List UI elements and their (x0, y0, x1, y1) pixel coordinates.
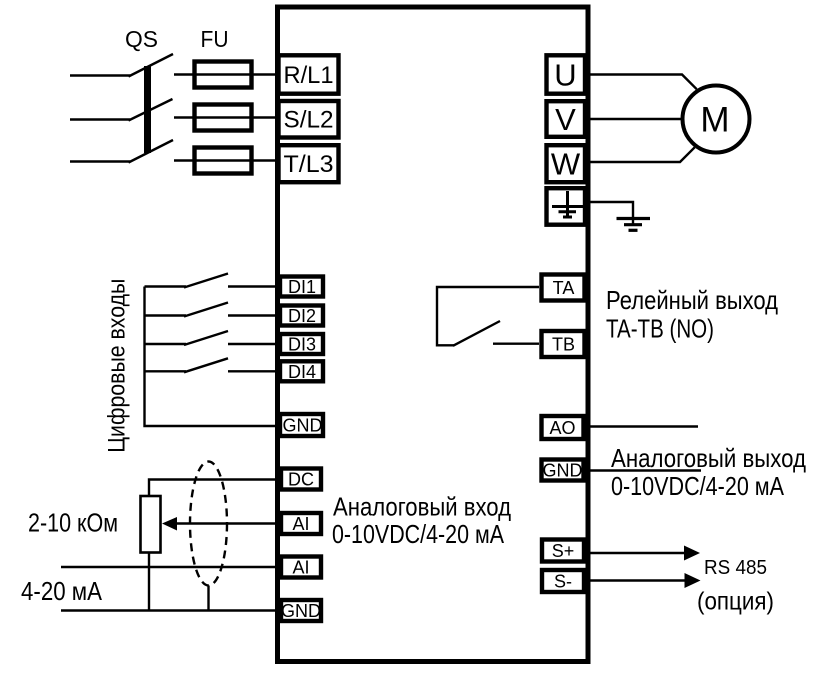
svg-text:AI: AI (292, 558, 309, 578)
shield ellipse (190, 462, 227, 586)
wire fuse FU1 to R/L1 (174, 73, 279, 75)
terminal DC (281, 469, 321, 490)
wire DI4 left (145, 370, 187, 372)
switch QS pole 3 blade (129, 140, 174, 163)
terminal DI4 (280, 361, 323, 382)
svg-text:DI3: DI3 (288, 335, 316, 355)
wire GND analog output (586, 469, 701, 471)
terminal GND analog input (281, 600, 321, 621)
svg-text:QS: QS (125, 26, 158, 52)
svg-text:4-20 мА: 4-20 мА (21, 576, 103, 606)
wire DI2 left (145, 314, 187, 316)
svg-text:RS 485: RS 485 (704, 557, 767, 579)
arrowhead S+ (684, 546, 700, 561)
svg-text:Аналоговый выход: Аналоговый выход (611, 443, 806, 473)
svg-text:Цифровые входы: Цифровые входы (104, 279, 131, 453)
wire PE to external earth (587, 202, 633, 224)
wire S- RS485 (586, 579, 685, 581)
svg-text:AO: AO (549, 418, 575, 438)
terminal U (547, 55, 586, 93)
relay blade (453, 321, 500, 346)
svg-text:(опция): (опция) (697, 588, 774, 616)
terminal T/L3 (279, 145, 339, 182)
wiper arrowhead (162, 517, 177, 531)
svg-text:DI1: DI1 (288, 277, 316, 297)
terminal GND analog output (542, 460, 584, 481)
wire U to motor (587, 75, 697, 90)
wire DC to potentiometer (149, 480, 279, 497)
terminal AI lower (281, 557, 321, 578)
fuse FU2 (195, 105, 252, 131)
terminal AI upper (281, 513, 321, 534)
svg-text:2-10 кОм: 2-10 кОм (28, 508, 118, 538)
digital input bus wire (145, 287, 280, 427)
inverter main box (278, 7, 589, 662)
svg-text:R/L1: R/L1 (284, 62, 334, 89)
terminal DI1 (280, 277, 323, 298)
wire DI3 left (145, 343, 187, 345)
terminal S+ (542, 540, 584, 562)
svg-text:AI: AI (292, 514, 309, 534)
wire AO output (586, 425, 698, 427)
terminal V (547, 101, 586, 137)
wiper wire AI (176, 522, 279, 524)
wire phase 2 input (70, 118, 130, 120)
wire fuse FU3 to T/L3 (174, 159, 279, 161)
svg-text:DI2: DI2 (288, 306, 316, 326)
svg-text:M: M (700, 101, 729, 140)
switch DI1 blade (184, 274, 228, 288)
terminal S- (542, 570, 584, 592)
terminal TA (542, 275, 585, 301)
terminal PE (547, 188, 586, 225)
wire GND analog input (61, 609, 279, 611)
wire DI1 right (228, 285, 279, 287)
switch QS pole 1 blade (129, 54, 174, 77)
shield drain wire (207, 586, 209, 611)
motor M (683, 86, 750, 153)
svg-text:TA: TA (553, 278, 575, 298)
svg-text:U: U (554, 58, 576, 93)
svg-text:TB: TB (552, 335, 575, 355)
wire phase 1 input (70, 74, 130, 76)
wire AI lower (4-20 mA) (61, 566, 279, 568)
svg-text:S/L2: S/L2 (284, 107, 334, 134)
terminal AO (542, 416, 584, 439)
svg-text:S-: S- (554, 572, 572, 592)
switch QS pole 2 blade (129, 99, 173, 121)
arrowhead S- (685, 573, 701, 588)
terminal DI3 (280, 334, 323, 355)
wire TB relay (493, 343, 539, 345)
switch DI4 blade (184, 358, 228, 372)
terminal S/L2 (279, 101, 339, 138)
svg-text:V: V (555, 102, 576, 137)
svg-text:GND: GND (281, 601, 321, 621)
svg-text:S+: S+ (552, 541, 575, 561)
wire DI3 right (228, 343, 279, 345)
earth symbol in PE terminal (552, 191, 584, 218)
svg-text:0-10VDC/4-20 мА: 0-10VDC/4-20 мА (611, 471, 785, 501)
wire DI1 left (145, 285, 187, 287)
terminal W (547, 145, 586, 182)
wire DI2 right (228, 314, 279, 316)
wire S+ RS485 (586, 552, 685, 554)
svg-text:Аналоговый вход: Аналоговый вход (333, 492, 511, 522)
svg-text:GND: GND (543, 461, 583, 481)
svg-text:FU: FU (201, 26, 229, 52)
wire V to motor (587, 118, 681, 120)
svg-text:DC: DC (288, 470, 314, 490)
terminal R/L1 (279, 55, 339, 93)
fuse FU1 (195, 62, 252, 88)
terminal DI2 (280, 306, 323, 327)
svg-text:Релейный выход: Релейный выход (606, 285, 778, 315)
external earth symbol (617, 219, 651, 231)
switch DI3 blade (184, 331, 228, 345)
wire fuse FU2 to S/L2 (174, 116, 279, 118)
switch DI2 blade (184, 303, 228, 317)
wire TA relay (437, 287, 539, 345)
QS mechanical link bar (144, 66, 151, 153)
svg-text:0-10VDC/4-20 мА: 0-10VDC/4-20 мА (332, 519, 505, 549)
potentiometer body 2-10 kOm (141, 496, 161, 553)
wire phase 3 input (70, 160, 130, 162)
terminal GND digital (280, 414, 323, 436)
fuse FU3 (195, 148, 252, 174)
svg-text:DI4: DI4 (288, 362, 316, 382)
wire DI4 right (228, 370, 279, 372)
wire pot bottom to GND (148, 553, 150, 611)
terminal TB (542, 331, 585, 357)
svg-text:TA-TB (NO): TA-TB (NO) (606, 314, 714, 344)
svg-text:T/L3: T/L3 (284, 151, 334, 178)
wire W to motor (587, 147, 695, 162)
svg-text:GND: GND (283, 416, 323, 436)
svg-text:W: W (551, 147, 581, 182)
